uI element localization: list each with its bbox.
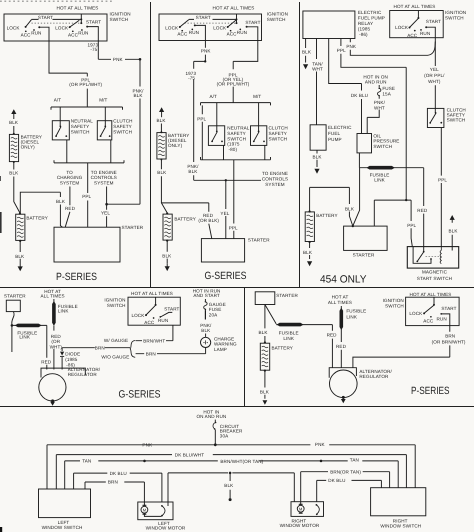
svg-text:LOCK: LOCK (395, 25, 409, 30)
wire PNK/BLK down (139, 59, 141, 204)
starter box P (54, 227, 120, 262)
svg-text:-75: -75 (188, 75, 195, 80)
diode symbol (60, 352, 64, 356)
svg-text:CONTROLS: CONTROLS (262, 176, 288, 181)
svg-text:DK BLU/WHT: DK BLU/WHT (175, 452, 204, 457)
wire BRN (OR TAN) right (301, 472, 390, 506)
svg-text:HOT AT ALL TIMES: HOT AT ALL TIMES (57, 6, 99, 11)
svg-text:FUEL: FUEL (328, 131, 340, 136)
electric fuel pump relay box (303, 11, 355, 39)
left window motor box (138, 502, 173, 520)
starter box G (201, 239, 244, 262)
battery 454 (309, 187, 311, 211)
svg-text:ACC: ACC (407, 33, 418, 38)
wire PPL to starter (87, 167, 89, 228)
svg-text:SAFETY: SAFETY (71, 124, 89, 129)
svg-text:RUN: RUN (158, 318, 168, 323)
wire YEL (OR PPL/WHT) ignition to clutch switch (434, 38, 436, 113)
wire TAN / BRN-WHT bus (65, 460, 399, 462)
svg-text:BATTERY: BATTERY (174, 216, 195, 221)
svg-text:BLK: BLK (9, 120, 19, 125)
svg-text:P-SERIES: P-SERIES (56, 271, 97, 283)
svg-text:PPL: PPL (407, 223, 416, 228)
svg-text:SYSTEM: SYSTEM (265, 182, 285, 187)
ignition switch box 454 (390, 11, 444, 38)
svg-text:PNK: PNK (315, 442, 326, 447)
battery 2 (G) (166, 212, 168, 214)
svg-text:START: START (441, 306, 456, 311)
svg-text:PNK: PNK (113, 57, 124, 62)
motor switch arc right (316, 504, 318, 506)
svg-text:ELECTRIC: ELECTRIC (358, 10, 382, 15)
svg-text:LINK: LINK (346, 315, 357, 320)
svg-text:SYSTEM: SYSTEM (60, 180, 80, 185)
svg-text:A/T: A/T (209, 94, 217, 99)
svg-text:SWITCH: SWITCH (107, 303, 126, 308)
svg-text:LINK: LINK (374, 178, 385, 183)
battery (diesel only) P (9, 134, 42, 161)
svg-text:RUN: RUN (420, 31, 430, 36)
svg-text:LOCK: LOCK (213, 25, 227, 30)
svg-text:LOCK: LOCK (165, 25, 179, 30)
ground below battery G (165, 266, 170, 271)
svg-text:ALL TIMES: ALL TIMES (41, 293, 65, 298)
right window switch box (371, 488, 426, 516)
svg-text:BLK: BLK (224, 483, 234, 488)
svg-text:SYSTEM: SYSTEM (94, 180, 114, 185)
ignition switch P internals: start bus (32, 18, 82, 20)
svg-text:SWITCH: SWITCH (110, 17, 129, 22)
wire RED to magnetic start switch (423, 168, 425, 252)
svg-text:BLK: BLK (313, 155, 323, 160)
svg-text:RELAY: RELAY (358, 21, 373, 26)
svg-text:HOT AT ALL TIMES: HOT AT ALL TIMES (394, 4, 436, 9)
svg-text:(OR PPL/WHT): (OR PPL/WHT) (217, 82, 250, 87)
svg-text:BATTERY: BATTERY (272, 345, 293, 350)
wire PPL from ignition (49, 41, 87, 107)
fusible link 454 (thick bar) (359, 167, 423, 169)
svg-text:START: START (38, 15, 53, 20)
svg-text:ALL TIMES: ALL TIMES (328, 300, 352, 305)
title P-SERIES (56, 271, 97, 283)
svg-text:BRN: BRN (146, 351, 156, 356)
svg-text:LOCK: LOCK (7, 26, 21, 31)
svg-text:ALTERNATOR/: ALTERNATOR/ (68, 367, 101, 372)
svg-text:WHT): WHT) (428, 79, 441, 84)
wire oil switch to fusible link (358, 153, 360, 168)
fusible link vertical (P mid) (340, 306, 342, 330)
node TO ENGINE CONTROLS SYSTEM (91, 170, 117, 185)
wire RED (OR WHT) (53, 326, 55, 370)
svg-text:G-SERIES: G-SERIES (205, 270, 247, 282)
clutch safety switch box (G) (251, 126, 267, 146)
wire BRN left (85, 482, 144, 506)
wire PPL rail (A/T) (201, 105, 203, 159)
switch arm cluster1 G (180, 20, 189, 27)
title 454 ONLY (320, 274, 367, 286)
divider band2/band3 (0, 406, 474, 408)
ground below battery 2 (18, 266, 23, 271)
svg-text:SWITCH: SWITCH (227, 136, 246, 141)
divider G/454 columns (299, 2, 301, 288)
wire BRN horizontal to brace (62, 347, 130, 349)
wire DK BLU/WHT bus (56, 454, 406, 456)
svg-text:WINDOW MOTOR: WINDOW MOTOR (280, 523, 320, 528)
junction PPL split (405, 199, 407, 201)
left window switch box (39, 489, 91, 518)
svg-text:BLK: BLK (449, 228, 459, 233)
svg-text:G-SERIES: G-SERIES (119, 389, 161, 401)
svg-text:(OR PPL/: (OR PPL/ (424, 73, 445, 78)
svg-text:M/T: M/T (253, 94, 261, 99)
svg-text:(OR BRN/WHT): (OR BRN/WHT) (432, 339, 466, 344)
svg-text:LOCK: LOCK (409, 311, 423, 316)
wire BRN to charge lamp (136, 348, 206, 354)
svg-text:HOT AT ALL TIMES: HOT AT ALL TIMES (213, 6, 255, 11)
svg-text:STARTER: STARTER (353, 253, 375, 258)
fusible link from starter (P mid) (265, 305, 333, 325)
svg-text:SWITCH: SWITCH (267, 17, 286, 22)
svg-text:P-SERIES: P-SERIES (411, 385, 450, 397)
svg-text:BLK: BLK (345, 206, 355, 211)
svg-text:LINK: LINK (58, 308, 69, 313)
divider P/G columns (150, 2, 152, 288)
clutch safety switch 454 (427, 108, 444, 127)
svg-text:NEUTRAL: NEUTRAL (227, 126, 249, 131)
svg-text:STARTER: STARTER (276, 293, 298, 298)
svg-text:DK BLU: DK BLU (110, 471, 127, 476)
node HOT IN ON AND RUN (363, 75, 388, 85)
wire BLK under relay + ground (305, 39, 307, 63)
svg-text:(1985: (1985 (358, 26, 371, 31)
wire BLK below battery G (166, 241, 168, 264)
svg-text:PUMP: PUMP (328, 137, 342, 142)
switch arm cluster2 (70, 20, 80, 27)
contact R wire out cluster1 (38, 26, 40, 28)
circuit breaker 30A (214, 420, 216, 422)
svg-text:RED: RED (65, 206, 76, 211)
svg-text:ELECTRIC: ELECTRIC (328, 125, 352, 130)
junction PNK node (139, 58, 142, 61)
wire BLK below battery 2 (19, 241, 21, 264)
svg-text:START: START (86, 20, 101, 25)
start contact 3 (86, 20, 101, 25)
wire PNK relay to ignition (350, 39, 435, 56)
svg-text:(1985: (1985 (65, 357, 78, 362)
svg-text:-75: -75 (90, 47, 97, 52)
svg-text:SWITCH: SWITCH (269, 136, 288, 141)
svg-text:START SWITCH: START SWITCH (417, 276, 452, 281)
page border dashes top (0, 0, 112, 2)
svg-text:WINDOW MOTOR: WINDOW MOTOR (146, 526, 186, 531)
wire A/T branch (59, 107, 61, 126)
wire RED (left) to alternator (331, 325, 333, 368)
ignition switch box (G mid) (128, 297, 180, 325)
wire to diesel battery G (160, 124, 162, 133)
motor M right (297, 505, 304, 512)
svg-text:ALTERNATOR/: ALTERNATOR/ (359, 369, 392, 374)
starter box 454 (344, 226, 388, 250)
wire PPL clutch switch to coil (440, 128, 442, 247)
fuse 15A (378, 85, 380, 88)
svg-text:M/T: M/T (99, 98, 107, 103)
wire 1973-75 / PNK-BLK down (194, 61, 206, 180)
svg-text:RUN: RUN (78, 31, 88, 36)
svg-text:LINK: LINK (19, 335, 30, 340)
svg-text:SWITCH: SWITCH (373, 144, 392, 149)
battery 2 (P) (19, 213, 21, 215)
switch arm cluster2 G (228, 20, 237, 27)
svg-text:BLK: BLK (157, 118, 167, 123)
svg-text:ACC: ACC (144, 320, 155, 325)
svg-text:W/ GAUGE: W/ GAUGE (104, 338, 128, 343)
wire BLK under fuel pump + ground (316, 150, 318, 167)
title G-SERIES (205, 270, 247, 282)
clutch safety switch box (P) (97, 121, 112, 140)
svg-text:PPL: PPL (197, 116, 206, 121)
svg-text:ACC: ACC (21, 32, 32, 37)
svg-text:CLUTCH: CLUTCH (269, 126, 288, 131)
svg-text:NEUTRAL: NEUTRAL (71, 119, 93, 124)
ground bus between motors (168, 473, 294, 506)
wire BLK ground drop (229, 473, 231, 498)
wire PNK G (204, 41, 206, 62)
wires out of switches G (224, 145, 265, 159)
svg-text:SAFETY: SAFETY (113, 124, 131, 129)
A/T M/T bracket G (201, 103, 271, 106)
svg-text:BLK: BLK (302, 49, 312, 54)
svg-text:PNK: PNK (346, 44, 357, 49)
svg-text:15A: 15A (382, 91, 391, 96)
alternator/regulator G (41, 368, 85, 377)
svg-text:TAN: TAN (350, 458, 359, 463)
svg-text:(1975: (1975 (227, 142, 240, 147)
wire CSS out (110, 140, 112, 163)
svg-text:454 ONLY: 454 ONLY (320, 274, 367, 286)
svg-text:BLK: BLK (15, 254, 25, 259)
wire starter to battery (12, 312, 14, 352)
svg-text:PNK: PNK (201, 49, 212, 54)
svg-text:RUN: RUN (237, 30, 247, 35)
svg-text:DK BLU: DK BLU (328, 478, 345, 483)
svg-text:SAFETY: SAFETY (227, 131, 245, 136)
lower brace G (201, 157, 271, 164)
magnetic start switch box (407, 247, 458, 269)
svg-text:M: M (299, 506, 302, 511)
hot feed into box (80, 14, 82, 23)
wire PNK/BLK stub above lamp (205, 334, 207, 338)
svg-text:SWITCH: SWITCH (447, 118, 466, 123)
svg-text:BLK: BLK (303, 250, 313, 255)
node HOT IN ON AND RUN (196, 409, 226, 419)
wire M/T branch (104, 107, 106, 126)
svg-text:BLK: BLK (56, 199, 66, 204)
svg-text:RED: RED (417, 208, 428, 213)
svg-text:RUN: RUN (31, 31, 41, 36)
svg-text:START: START (245, 20, 260, 25)
node TO ENGINE CONTROLS SYSTEM (G) (262, 171, 288, 187)
svg-text:BLK: BLK (134, 93, 144, 98)
ground G top (161, 111, 163, 117)
ground (top left) (13, 113, 15, 119)
svg-text:BATTERY: BATTERY (316, 213, 337, 218)
svg-text:ACC: ACC (227, 32, 238, 37)
title P-SERIES mid (411, 385, 450, 397)
battery cable BLK to starter 454 (310, 187, 353, 226)
wire BLK starter to battery (264, 305, 266, 343)
wire BRN/WHT to ignition (136, 325, 173, 341)
battery (P mid) (264, 341, 266, 343)
right window motor box (291, 502, 324, 517)
svg-text:BRN: BRN (95, 345, 105, 350)
svg-text:PPL: PPL (438, 177, 447, 182)
wire BLK below diesel battery (14, 162, 20, 213)
svg-text:BRN: BRN (445, 333, 455, 338)
svg-text:ONLY): ONLY) (21, 145, 36, 150)
wire PNK left drop to switch (46, 445, 48, 489)
fusible link vertical (G mid) (53, 299, 55, 326)
node HOT IN RUN AND START (193, 289, 221, 299)
wire PNK right drop to switch (414, 445, 416, 488)
svg-text:30A: 30A (220, 433, 229, 438)
battery cable to starter (BLK) (20, 192, 62, 227)
wire RED to alternator (46, 325, 48, 369)
wire engine controls stub (106, 187, 108, 205)
svg-text:SWITCH: SWITCH (113, 129, 132, 134)
svg-text:LOCK: LOCK (131, 313, 145, 318)
svg-text:RED: RED (327, 333, 338, 338)
wire BLK below battery P mid + ground (264, 371, 266, 399)
svg-text:RED: RED (41, 360, 52, 365)
wire TAN/WHT to fuel pump (316, 39, 318, 125)
wire PNK bus (47, 444, 415, 446)
starter box (G mid) (4, 293, 26, 298)
wire to CSS G (258, 103, 260, 132)
svg-text:BATTERY: BATTERY (26, 215, 47, 220)
wire BLK below diesel battery G (161, 159, 167, 213)
start contact out 454 (425, 26, 427, 28)
svg-text:DIODE: DIODE (65, 351, 80, 356)
svg-text:PPL: PPL (337, 48, 346, 53)
svg-text:PPL: PPL (229, 225, 238, 230)
wire PPL relay long (341, 39, 406, 201)
svg-text:BLK: BLK (157, 170, 167, 175)
svg-text:YEL: YEL (101, 211, 110, 216)
divider mid G/P (244, 288, 246, 407)
svg-text:BLK: BLK (260, 389, 270, 394)
wire to charging stub / RED (65, 187, 70, 228)
motor M left (141, 506, 148, 513)
switch arm inside (423, 251, 425, 253)
wire to diesel battery (13, 126, 15, 134)
wire YEL junction (107, 204, 140, 227)
svg-text:HOT AT ALL TIMES: HOT AT ALL TIMES (131, 291, 173, 296)
svg-text:TO ENGINE: TO ENGINE (262, 171, 288, 176)
wire DK BLU left (74, 473, 162, 502)
svg-text:STARTER: STARTER (122, 225, 144, 230)
svg-text:STARTER: STARTER (4, 293, 26, 298)
wire RED (right) (340, 330, 342, 368)
battery cable RED (OR BLK) to starter G (161, 203, 211, 239)
svg-text:LINK: LINK (283, 336, 294, 341)
svg-text:ACC: ACC (177, 32, 188, 37)
svg-text:WINDOW SWITCH: WINDOW SWITCH (380, 523, 421, 528)
svg-text:BRN/WHT(OR TAN): BRN/WHT(OR TAN) (220, 459, 263, 464)
wire PPL main G (233, 41, 258, 103)
svg-text:WHT: WHT (374, 105, 385, 110)
wire PPL to starter G (233, 164, 235, 239)
motor switch arc left (161, 505, 163, 507)
svg-text:ONLY): ONLY) (168, 143, 183, 148)
svg-text:SAFETY: SAFETY (269, 131, 287, 136)
svg-text:YEL: YEL (220, 211, 229, 216)
svg-text:M: M (143, 507, 146, 512)
svg-text:RUN: RUN (189, 30, 199, 35)
coil inside (440, 247, 441, 264)
svg-text:REGULATOR: REGULATOR (359, 374, 389, 379)
svg-text:BLK: BLK (259, 330, 269, 335)
svg-text:STARTER: STARTER (248, 238, 270, 243)
dashed contact line (32, 22, 81, 24)
ground BLK into switch (451, 220, 453, 251)
neutral safety switch box (P) (52, 121, 69, 140)
svg-text:BRN/WHT: BRN/WHT (143, 338, 165, 343)
node HOT AT ALL TIMES (G mid) (41, 289, 65, 298)
node HOT AT ALL TIMES label (57, 6, 131, 22)
ignition switch box (P mid) (406, 297, 460, 325)
svg-text:DK BLU: DK BLU (351, 93, 368, 98)
starter box (P mid) (255, 292, 275, 305)
svg-text:-80): -80) (229, 147, 238, 152)
svg-text:FUSIBLE: FUSIBLE (346, 309, 366, 314)
wire NSS out (66, 140, 68, 163)
svg-text:AND RUN: AND RUN (365, 79, 387, 84)
svg-text:WHT): WHT) (50, 344, 63, 349)
svg-text:ACC: ACC (423, 319, 434, 324)
wire pnk/blk horizontal + YEL junction (194, 179, 261, 181)
svg-text:(OR BLK): (OR BLK) (198, 218, 219, 223)
svg-text:CLUTCH: CLUTCH (113, 119, 132, 124)
svg-text:ACC: ACC (68, 32, 79, 37)
svg-text:20A: 20A (209, 312, 218, 317)
charge warning lamp (201, 337, 211, 347)
svg-text:BLK: BLK (9, 170, 19, 175)
svg-text:BRN: BRN (108, 480, 118, 485)
svg-text:BRN(OR TAN): BRN(OR TAN) (330, 469, 361, 474)
divider band1/band2 (0, 287, 474, 289)
svg-text:-86): -86) (359, 32, 368, 37)
fusible link horizontal (G mid) (12, 324, 47, 326)
svg-text:SWITCH: SWITCH (385, 303, 404, 308)
svg-text:BLK: BLK (188, 169, 198, 174)
title G-SERIES mid (119, 389, 161, 401)
svg-text:ON AND RUN: ON AND RUN (196, 414, 226, 419)
bottom-left corner scan mark (0, 527, 2, 532)
svg-text:(OR PPL/WHT): (OR PPL/WHT) (69, 82, 102, 87)
wire to NSS G (216, 103, 218, 132)
svg-text:LOCK: LOCK (55, 26, 69, 31)
contact out cluster1 G (PNK) (194, 24, 196, 26)
battery (diesel only) G (157, 133, 190, 159)
svg-text:START: START (196, 15, 211, 20)
node TO CHARGING SYSTEM (57, 170, 83, 185)
svg-text:LAMP: LAMP (214, 347, 227, 352)
oil pressure switch box (357, 134, 372, 153)
wire BLK below battery 454 + ground (309, 242, 311, 259)
diode wire + BRN (61, 348, 63, 370)
left edge scan mark (0, 212, 2, 233)
svg-text:BLK: BLK (201, 328, 211, 333)
